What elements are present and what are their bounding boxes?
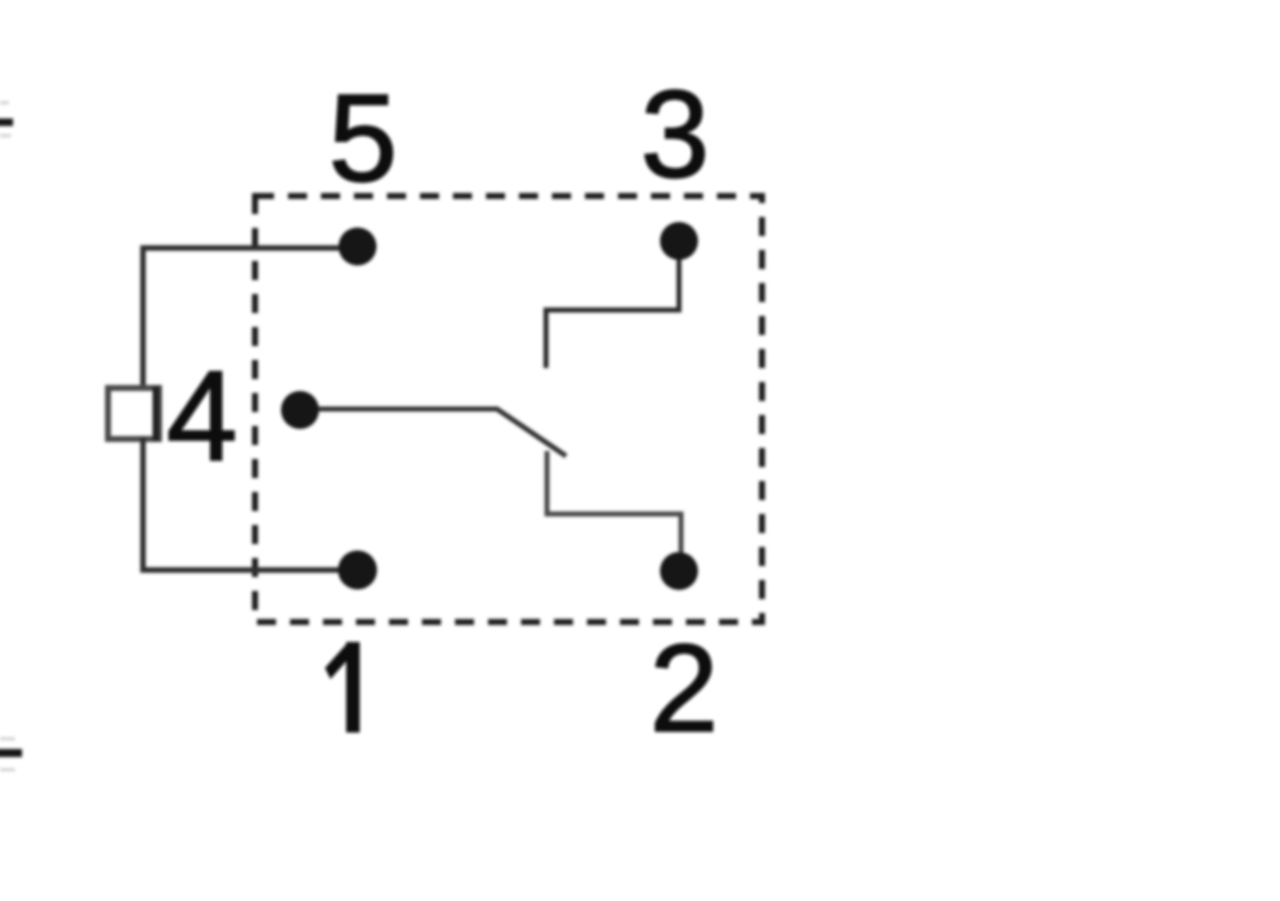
faint halo above top tick <box>0 101 9 105</box>
pin 3 terminal dot <box>660 222 698 260</box>
pin label 1 (drawn: stem + flag, no base serif) <box>325 642 360 733</box>
wire: movable contact to pin 2 (down, right, down) <box>547 451 681 571</box>
pin 1 terminal dot <box>338 551 377 590</box>
svg-text:2: 2 <box>650 620 719 758</box>
page-edge tick (top left) <box>0 119 13 127</box>
wire: coil to pin 1 (down then right) <box>143 437 352 570</box>
faint halo above bottom tick <box>0 737 15 741</box>
svg-text:5: 5 <box>329 70 398 208</box>
faint halo below top tick <box>0 134 11 138</box>
faint halo below bottom tick <box>0 768 15 772</box>
wire: pin 4 common with armature diagonal <box>300 409 566 456</box>
relay body outline (dashed box) <box>255 196 762 622</box>
svg-text:3: 3 <box>641 66 710 204</box>
wire: pin 3 fixed contact (down, left, down) <box>546 241 679 368</box>
svg-text:4: 4 <box>166 345 237 488</box>
page-edge tick (bottom left) <box>0 749 22 757</box>
coil box darker right edge <box>153 386 160 441</box>
wire: pin 5 to coil (left then down) <box>143 248 357 390</box>
pin 2 terminal dot <box>660 552 698 590</box>
pin 4 terminal dot <box>281 391 319 429</box>
coil box <box>108 388 159 439</box>
pin 5 terminal dot <box>339 228 377 266</box>
